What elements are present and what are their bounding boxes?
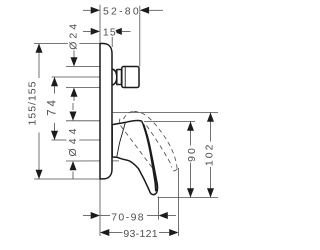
svg-text:155/155: 155/155 [27,81,39,126]
svg-text:70-98: 70-98 [111,211,145,223]
svg-text:90: 90 [186,146,198,162]
svg-text:102: 102 [203,143,215,167]
svg-text:15: 15 [103,27,117,39]
svg-text:Ø44: Ø44 [67,125,79,157]
svg-text:74: 74 [47,97,59,116]
svg-text:52-80: 52-80 [103,6,141,18]
svg-text:93-121: 93-121 [123,228,157,240]
svg-text:Ø24: Ø24 [67,21,79,50]
